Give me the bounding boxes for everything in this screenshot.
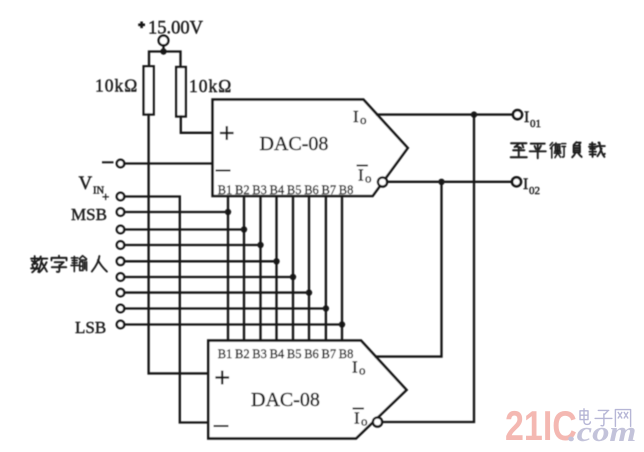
wire bus B5 xyxy=(292,196,294,341)
terminal minus input xyxy=(117,160,125,168)
hanzi fu (load) xyxy=(572,142,581,157)
svg-text:o: o xyxy=(359,363,366,378)
resistor R1 10k xyxy=(144,66,154,114)
svg-text:B1: B1 xyxy=(218,183,233,197)
svg-text:10kΩ: 10kΩ xyxy=(95,76,138,96)
wire bit2 xyxy=(124,228,244,230)
op-amp U1 DAC-08 top: body outline xyxy=(213,100,408,196)
U1 plus input mark xyxy=(221,127,233,139)
terminal bit2 xyxy=(117,226,125,234)
svg-text:o: o xyxy=(361,414,368,429)
svg-text:DAC-08: DAC-08 xyxy=(260,133,329,155)
svg-text:02: 02 xyxy=(529,185,540,197)
U2 pin label Io xyxy=(352,358,366,378)
U2 plus input mark xyxy=(217,372,229,384)
U2 pin label Io-bar xyxy=(354,409,368,429)
U1 minus input mark xyxy=(217,170,230,172)
label I01 xyxy=(524,109,541,130)
wire R1 bottom to DAC2 plus xyxy=(149,115,210,374)
node bit1-B1 xyxy=(225,209,231,215)
watermark hanzi dian-zi-wang xyxy=(580,409,631,427)
svg-text:+: + xyxy=(102,189,109,204)
label I02 xyxy=(523,176,540,197)
wire bit3 xyxy=(124,244,260,246)
svg-text:B7: B7 xyxy=(322,347,337,361)
svg-text:DAC-08: DAC-08 xyxy=(251,389,320,411)
node bit7-B7 xyxy=(323,305,329,311)
terminal bit1 MSB xyxy=(117,208,125,216)
node bit8-B8 xyxy=(339,321,345,327)
node bit4-B4 xyxy=(273,258,279,264)
U1 pin label Io-bar xyxy=(358,166,372,186)
hanzi zai (carry) xyxy=(589,143,605,157)
wire supply branch xyxy=(149,52,181,68)
wire R2 bottom to DAC1 plus xyxy=(181,117,214,133)
supply label +15.00V xyxy=(140,23,144,27)
node bit2-B2 xyxy=(241,226,247,232)
label VIN xyxy=(79,173,110,204)
terminal bit6 xyxy=(117,289,125,297)
hanzi zi (character) xyxy=(51,256,66,272)
hanzi shu (number) xyxy=(31,256,47,272)
node bit3-B3 xyxy=(257,242,263,248)
U1 pin label Io xyxy=(353,107,367,127)
svg-text:21IC: 21IC xyxy=(505,403,577,450)
hanzi shu (input) xyxy=(71,256,86,272)
svg-text:I: I xyxy=(353,107,359,126)
wire VIN to DAC2 minus xyxy=(124,197,209,423)
op-amp U2 DAC-08 bottom: body outline xyxy=(208,341,406,439)
wire bit8 xyxy=(124,323,342,325)
wire bit5 xyxy=(124,276,293,278)
U2 minus input mark xyxy=(215,425,228,427)
wire bus B4 xyxy=(275,196,277,341)
U1 pin labels B1-B8 xyxy=(218,183,354,197)
svg-text:B8: B8 xyxy=(339,347,354,361)
svg-text:B5: B5 xyxy=(287,183,302,197)
node Io junction xyxy=(471,111,477,117)
label minus xyxy=(103,161,113,163)
wire I02 column down to DAC2 Io xyxy=(376,182,442,357)
node Iobar junction xyxy=(438,179,444,185)
hanzi heng (balance) xyxy=(550,143,566,158)
wire bus B1 xyxy=(227,196,229,341)
wire bus B3 xyxy=(259,196,261,341)
wire DAC1 Iobar out xyxy=(387,181,512,183)
svg-text:.com: .com xyxy=(568,416,636,447)
wire minus to DAC1 xyxy=(124,162,213,164)
svg-text:B3: B3 xyxy=(252,347,267,361)
svg-text:I: I xyxy=(354,409,360,428)
hanzi zhi (to) xyxy=(511,143,527,157)
svg-text:B6: B6 xyxy=(304,347,319,361)
svg-text:B5: B5 xyxy=(287,347,302,361)
svg-text:B2: B2 xyxy=(235,347,250,361)
wire bus B2 xyxy=(243,196,245,341)
wire bit4 xyxy=(124,260,276,262)
svg-text:01: 01 xyxy=(530,118,541,130)
wire bit7 xyxy=(124,307,326,309)
svg-text:I: I xyxy=(524,109,529,126)
wire bus B8 xyxy=(341,196,343,341)
svg-text:10kΩ: 10kΩ xyxy=(189,76,232,96)
terminal I02 xyxy=(512,177,521,186)
terminal I01 xyxy=(513,110,522,119)
label digital input (hanzi) xyxy=(31,256,107,273)
terminal bit7 xyxy=(117,305,125,313)
svg-text:B3: B3 xyxy=(252,183,267,197)
hanzi ping (balanced) xyxy=(530,144,546,159)
svg-text:B6: B6 xyxy=(304,183,319,197)
svg-text:B4: B4 xyxy=(270,347,285,361)
svg-text:V: V xyxy=(79,173,93,194)
label to balanced load (hanzi) xyxy=(511,142,605,158)
U2 pin labels B1-B8 xyxy=(218,347,354,361)
svg-text:MSB: MSB xyxy=(71,205,107,224)
wire bit6 xyxy=(124,291,309,293)
svg-text:I: I xyxy=(523,176,528,193)
node supply junction xyxy=(160,48,166,54)
terminal bit4 xyxy=(117,258,125,266)
terminal +15V xyxy=(159,36,169,46)
svg-text:15.00V: 15.00V xyxy=(148,19,204,39)
terminal bit3 xyxy=(117,241,125,249)
svg-text:B2: B2 xyxy=(235,183,250,197)
svg-text:B4: B4 xyxy=(270,183,285,197)
terminal VIN plus xyxy=(117,193,125,201)
inverter bubble DAC1 Iobar xyxy=(378,177,387,186)
terminal bit5 xyxy=(117,273,125,281)
inverter bubble DAC2 Iobar xyxy=(373,417,382,426)
wire bit1 xyxy=(124,211,228,213)
wire bus B7 xyxy=(325,196,327,341)
svg-text:o: o xyxy=(360,112,367,127)
svg-text:I: I xyxy=(358,166,364,185)
svg-text:B8: B8 xyxy=(339,183,354,197)
svg-text:o: o xyxy=(365,171,372,186)
wire supply stem xyxy=(162,45,164,51)
hanzi ru (enter) xyxy=(92,256,107,271)
wire I01 column down to DAC2 Iobar xyxy=(382,115,474,422)
resistor R2 10k xyxy=(176,67,186,117)
node bit6-B6 xyxy=(306,289,312,295)
wire DAC1 Io out xyxy=(377,113,513,115)
node bit5-B5 xyxy=(290,274,296,280)
terminal bit8 LSB xyxy=(117,321,125,329)
wire bus B6 xyxy=(308,196,310,341)
svg-text:B7: B7 xyxy=(322,183,337,197)
svg-text:B1: B1 xyxy=(218,347,233,361)
svg-text:LSB: LSB xyxy=(75,318,106,337)
